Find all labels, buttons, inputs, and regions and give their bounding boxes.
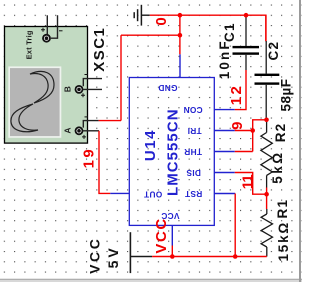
svg-text:9: 9	[229, 122, 246, 130]
svg-text:R2: R2	[273, 123, 288, 143]
pin stub THR	[214, 151, 235, 153]
resistor R2 bottom lead	[266, 175, 268, 187]
ground symbol	[134, 5, 150, 26]
wire VCC rail	[152, 256, 267, 258]
Ext Trig - pin wire	[51, 15, 58, 38]
oscilloscope XSC1 body	[5, 27, 88, 144]
svg-text:OUT: OUT	[144, 190, 162, 200]
resistor R1 bottom lead	[266, 247, 268, 257]
junction net0 at scope branch	[178, 33, 183, 38]
capacitor C2 bottom lead	[265, 85, 267, 120]
svg-text:VCC: VCC	[153, 217, 170, 253]
Ext Trig + mark	[41, 28, 45, 32]
Ext Trig terminal	[42, 34, 51, 43]
junction net9 at TRI	[250, 128, 255, 133]
wire VCC pin drop	[171, 246, 173, 257]
Ext Trig + pin wire	[46, 15, 48, 34]
scope A + mark	[82, 135, 86, 139]
svg-text:RST: RST	[185, 189, 203, 199]
capacitor C2 top red wire	[265, 15, 267, 41]
resistor R1 zigzag	[261, 214, 272, 247]
svg-text:10nF: 10nF	[217, 39, 232, 79]
scope channel A terminal	[75, 126, 84, 135]
scope B- pin stub	[83, 79, 102, 87]
workspace bottom border	[0, 280, 302, 282]
wire net 9 TRI	[235, 130, 253, 132]
svg-text:0: 0	[153, 17, 170, 25]
capacitor C2 plates	[255, 74, 280, 85]
svg-text:TRI: TRI	[187, 126, 201, 136]
pin stub DIS	[214, 172, 235, 174]
scope A- pin stub	[83, 121, 98, 128]
wire net 0 to scope A-	[99, 120, 121, 122]
wire net 11 R2 bottom	[266, 188, 268, 210]
VCC power symbol bar	[129, 232, 131, 273]
wire net 0 horizontal to scope	[121, 34, 180, 36]
scope A - mark	[85, 116, 89, 118]
wire net 9 vertical	[253, 120, 267, 152]
op-amp U14 LMC555CN box	[129, 78, 214, 226]
workspace right border	[299, 0, 301, 282]
junction net0 at C1	[244, 13, 249, 18]
junction net11 at R1/R2	[264, 192, 269, 197]
svg-text:11: 11	[240, 175, 257, 190]
scope B - mark	[85, 74, 89, 76]
resistor R2 zigzag	[261, 133, 272, 176]
wire RST to VCC rail	[234, 194, 236, 257]
svg-text:GND: GND	[158, 83, 177, 93]
svg-text:VCC: VCC	[86, 237, 102, 274]
resistor R2 top lead	[266, 120, 268, 133]
wire net 0 to IC GND pin	[179, 15, 181, 54]
svg-text:A: A	[62, 128, 72, 134]
wire net 12 C1 to CON	[235, 70, 246, 110]
svg-text:XSC1: XSC1	[91, 27, 108, 72]
svg-text:C2: C2	[266, 41, 281, 61]
VCC power symbol lead	[130, 256, 152, 258]
svg-text:15kΩ: 15kΩ	[276, 221, 291, 262]
scope B+ pin stub	[83, 88, 102, 90]
svg-text:Ext Trig: Ext Trig	[25, 30, 34, 59]
svg-text:5V: 5V	[105, 245, 121, 268]
junction net0 at GND drop	[178, 13, 183, 18]
pin stub VCC	[171, 225, 173, 245]
pin stub TRI	[214, 130, 235, 132]
svg-text:LMC555CN: LMC555CN	[164, 108, 181, 196]
capacitor C1 plates	[233, 46, 260, 55]
svg-text:B: B	[62, 86, 72, 92]
scope channel B terminal	[75, 85, 84, 94]
oscilloscope sine trace	[11, 71, 54, 131]
svg-text:U14: U14	[142, 129, 159, 161]
wire net 0 top rail	[150, 15, 266, 41]
svg-text:CON: CON	[183, 105, 202, 115]
scope B + mark	[81, 93, 85, 97]
pin stub GND	[179, 54, 181, 77]
wire net 9 THR	[235, 151, 253, 153]
pin stub CON	[214, 109, 235, 111]
wire net 11 DIS	[235, 173, 267, 195]
capacitor C1 top lead	[245, 15, 247, 46]
wire net 19 scope A+ to OUT	[99, 131, 110, 194]
svg-text:THR: THR	[184, 147, 202, 157]
scope A+ pin stub	[83, 130, 99, 132]
svg-text:19: 19	[81, 147, 98, 169]
svg-text:12: 12	[228, 84, 245, 106]
svg-text:58µF: 58µF	[279, 78, 294, 111]
capacitor C1 bottom lead	[245, 55, 247, 70]
oscilloscope screen	[8, 66, 61, 137]
capacitor C2 top lead	[265, 41, 267, 74]
pin stub RST	[214, 193, 235, 195]
resistor R1 top lead	[266, 209, 268, 214]
junction net9 at C2/R2	[264, 118, 269, 123]
svg-text:5kΩ: 5kΩ	[270, 150, 285, 183]
junction VCC pin	[170, 254, 175, 259]
svg-text:DIS: DIS	[186, 168, 201, 178]
pin stub OUT	[110, 192, 129, 194]
junction RST rail	[233, 254, 238, 259]
svg-text:R1: R1	[275, 199, 290, 219]
Ext Trig - mark	[59, 30, 63, 32]
svg-text:C1: C1	[222, 22, 237, 42]
wire net 0 vertical at scope	[120, 35, 122, 120]
